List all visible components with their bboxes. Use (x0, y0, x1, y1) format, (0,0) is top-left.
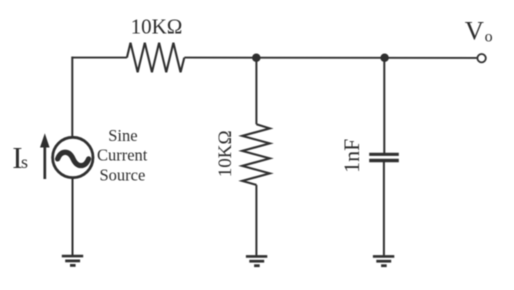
label: Vo output voltage (465, 15, 493, 45)
ground (left, under current source) (62, 256, 83, 265)
node Vo: open terminal circle (477, 54, 485, 62)
svg-text:10KΩ: 10KΩ (215, 130, 236, 177)
svg-text:s: s (21, 152, 28, 172)
wire: top-left vertical segment (corner to current source top) (71, 57, 73, 138)
ground (middle, under shunt resistor) (246, 256, 267, 265)
label: Sine Current Source description (97, 126, 148, 185)
resistor 10KΩ series (horizontal zigzag) (127, 43, 184, 72)
wire: top horizontal segment right (series resistor to Vo terminal) (184, 57, 476, 59)
current source Is: sine wave symbol (58, 152, 89, 165)
svg-text:10KΩ: 10KΩ (131, 15, 183, 39)
svg-text:Source: Source (99, 166, 145, 185)
resistor 10KΩ shunt (vertical zigzag) (242, 124, 270, 185)
node: junction dot at shunt resistor branch (252, 53, 261, 62)
wire: junction to shunt resistor top (255, 58, 257, 125)
arrow: current direction (upward) beside source (40, 133, 50, 179)
wire: capacitor bottom plate to right ground (383, 162, 385, 256)
wire: junction to capacitor top plate (383, 58, 385, 153)
svg-text:V: V (465, 15, 484, 45)
svg-text:Sine: Sine (108, 126, 137, 145)
node: junction dot at capacitor branch (380, 54, 389, 63)
svg-text:1nF: 1nF (339, 139, 364, 173)
label: Is source current (12, 140, 28, 175)
wire: current source bottom to left ground (72, 178, 74, 256)
wire: top horizontal segment left (corner to series resistor) (71, 57, 127, 59)
current source Is: circle with sine symbol (53, 137, 93, 177)
wire: shunt resistor bottom to middle ground (255, 185, 257, 256)
ground (right, under capacitor) (373, 256, 394, 265)
svg-text:Current: Current (97, 146, 148, 165)
svg-text:o: o (485, 29, 493, 46)
capacitor C 1nF: plates (369, 154, 399, 160)
